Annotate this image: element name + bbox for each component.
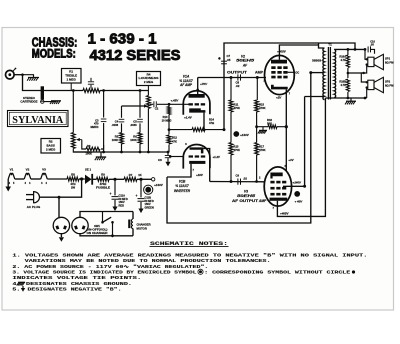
svg-text:+10V: +10V [196,173,204,177]
svg-text:+140V: +140V [240,133,250,137]
svg-text:+140V: +140V [154,183,164,187]
svg-text:V1: V1 [10,167,14,171]
svg-text:50 MFD: 50 MFD [119,197,128,201]
resistor R5 100K [121,123,123,132]
ground bus [73,151,168,153]
svg-text:OUTPUT: OUTPUT [227,70,248,74]
resistor R16A [347,49,349,55]
ground at cartridge [51,100,61,102]
svg-text:AF AMP: AF AMP [179,83,193,87]
svg-text:+: + [110,192,112,196]
svg-text:+1.4V: +1.4V [184,116,193,120]
capacitor C9 .02 [237,179,239,185]
wire SP1 to SP2 series [361,65,366,83]
capacitor C2 [153,101,155,107]
wire AC to rectifier branch [40,179,82,197]
wire motor loop bottom [80,234,133,236]
svg-text:INDICATES VOLTAGE TIE POINTS.: INDICATES VOLTAGE TIE POINTS. [12,275,141,281]
wire loudness box to pot [147,86,149,91]
wire input down to signal line [23,75,84,91]
V3 plate [270,173,282,179]
svg-text:5.: 5. [12,287,20,293]
heater V2 winding [24,173,31,179]
svg-text:SP2: SP2 [385,79,391,83]
svg-text:OC: OC [295,71,299,75]
wire secondary bottom [325,97,366,99]
V1A plate lead [197,78,199,95]
R16 mid tap wire [347,72,350,75]
svg-text:.02: .02 [236,84,240,88]
ground on R18 line [262,127,264,131]
negative arrow below interlock [60,234,62,238]
svg-text:C11A: C11A [119,193,126,197]
control box R1 treble [62,69,82,84]
capacitor C10 .05 [367,46,369,52]
resistor R16B [346,79,349,92]
svg-text:2. AC POWER SOURCE - 117V 60∿: 2. AC POWER SOURCE - 117V 60∿ "VARIAC RE… [12,264,208,270]
svg-text:.05: .05 [370,43,374,47]
signal line to loudness [100,90,148,92]
svg-text:MOTOR: MOTOR [137,226,147,230]
capacitor C11A [114,179,116,195]
svg-text:AMP: AMP [255,70,264,74]
svg-text:ON-OFF(VOL): ON-OFF(VOL) [87,228,108,232]
V1B grid lead [169,156,183,158]
V1B cathode [189,161,205,164]
svg-text:150V: 150V [145,202,151,206]
svg-text:1 - 639 - 1: 1 - 639 - 1 [88,30,157,47]
switch SW1 [101,221,104,224]
svg-text:2 MEG: 2 MEG [144,80,154,84]
svg-text:50EH5: 50EH5 [237,194,255,198]
svg-text:1K: 1K [138,173,141,177]
capacitor C6 to negative B [167,152,169,155]
svg-text:C5: C5 [133,119,137,123]
wire primary bottom lead [305,96,325,98]
svg-text:.0033: .0033 [111,123,118,127]
svg-text:4.7K: 4.7K [341,83,347,87]
wire heater link 1 [15,178,24,180]
svg-text:V3: V3 [244,189,248,193]
svg-text:4.7K: 4.7K [341,58,347,62]
wire primary center tap [311,72,325,74]
svg-text:50 MFD: 50 MFD [145,199,154,203]
capacitor C11B [140,179,142,197]
svg-text:56Ω: 56Ω [267,121,273,125]
svg-text:FUSIBLE: FUSIBLE [96,185,110,189]
svg-text:AF OUTPUT: AF OUTPUT [232,199,258,203]
capacitor C4 .0033 [119,118,125,120]
T1 primary top lead [319,43,325,48]
svg-text:DESIGNATES CHASSIS GROUND.: DESIGNATES CHASSIS GROUND. [26,281,132,287]
transformer T1 core [327,47,329,100]
svg-text:10 MEG: 10 MEG [162,118,172,122]
svg-text:R6: R6 [133,134,137,138]
svg-text:V1B: V1B [179,179,186,183]
svg-text:SYLVANIA: SYLVANIA [12,115,64,126]
resistor R11 470K [230,78,232,101]
wire bass branch down [72,91,74,133]
svg-text:1. VOLTAGES SHOWN ARE AVERAGE: 1. VOLTAGES SHOWN ARE AVERAGE READINGS M… [12,252,367,258]
resistor R13 470K [229,143,233,156]
triode V1A half 12AX7 AF amp [183,91,210,115]
svg-text:38303-1: 38303-1 [312,59,325,63]
tie point +40V [294,191,300,197]
pentode V3 50EH5 AF output amp [264,167,291,206]
svg-text:.02: .02 [243,176,247,180]
wire SP2 bottom [366,88,368,98]
svg-text:SW1: SW1 [94,224,100,228]
V1A cathode lead [203,113,205,130]
svg-text:SCHEMATIC NOTES:: SCHEMATIC NOTES: [150,241,228,247]
wire pot to C2 [150,103,153,105]
resistor R14 47 ohm [192,128,205,132]
wire wiper to R3 [82,140,86,149]
V1A grid dashes [189,103,193,105]
bass pot wiper arrow [78,139,82,141]
speaker SP2 [366,81,368,83]
svg-text:470K: 470K [234,106,240,110]
V2 grid dashes [271,66,275,69]
svg-text:50EH5: 50EH5 [236,58,254,62]
V1B grid dashes [189,155,193,157]
wire AC to interlock [58,197,60,218]
svg-text:100K: 100K [112,138,118,142]
svg-text:47K: 47K [172,139,177,143]
svg-text:470Ω: 470Ω [100,182,107,186]
V2 plate lead [279,45,318,60]
svg-text:+: + [136,194,138,198]
svg-text:C4: C4 [115,119,119,123]
resistor R8 47 ohm 2W [67,177,79,181]
svg-text:R5: R5 [115,134,119,138]
svg-text:T1: T1 [328,43,332,47]
svg-text:R9: R9 [101,173,105,177]
resistor R6 100K [139,123,141,132]
V1A plate [189,94,205,98]
svg-text:8Ω PM: 8Ω PM [385,83,394,87]
svg-text:AC PLUG: AC PLUG [27,205,41,209]
V3 plate lead right [283,185,305,187]
V1B cathode lead [167,164,191,177]
wire cartridge to ground [44,100,56,103]
svg-text:3. VOLTAGE SOURCE IS INDICATED: 3. VOLTAGE SOURCE IS INDICATED BY ENCIRC… [12,270,196,276]
wire V1A plate to V2 grid [198,77,266,79]
svg-text:+70V: +70V [200,82,208,86]
V3 grid dashes [270,181,274,184]
terminal circle B+ [152,178,155,181]
svg-text:+.45V: +.45V [171,98,180,102]
capacitor C7 .05 [221,60,227,62]
resistor R9 fusible [97,177,110,181]
wire jack to cartridge node [14,74,22,76]
V1B plate lead [203,149,209,182]
svg-text:GREEN: GREEN [145,206,154,210]
AC plug [26,194,34,196]
V3 cathode lead [277,98,325,216]
ground at input jack [28,77,39,79]
wire interlock to switch loop [80,212,133,218]
capacitor C8 .02 [237,74,239,80]
wire secondary top [334,48,366,50]
svg-text:½ 12AX7: ½ 12AX7 [175,184,189,188]
svg-text:INVERTER: INVERTER [174,189,191,193]
control box R2 bass [41,139,61,154]
wire heater link 2 [31,178,41,180]
svg-text:4312 SERIES: 4312 SERIES [90,47,181,64]
top feedback bus [224,43,355,130]
wire C3 branch [103,91,105,118]
heater V3 winding [41,173,48,179]
svg-text:CARTRIDGE: CARTRIDGE [20,99,37,103]
Sylvania logo box [8,111,69,127]
wire heater to R8 [47,178,67,180]
resistor R1 treble pot element [83,89,100,93]
resistor R2 bass pot element [71,133,75,149]
control box R4 loudness [137,72,161,86]
svg-text:1 MEG: 1 MEG [67,78,77,82]
svg-text:R13: R13 [234,145,239,149]
V3 cathode [270,198,288,201]
svg-text:C6: C6 [158,158,162,162]
svg-text:+405V: +405V [277,49,287,53]
wire rectified output [109,178,124,180]
wire treble box to signal line [70,83,72,91]
svg-text:R16B: R16B [339,80,346,84]
svg-text:+405V: +405V [280,211,290,215]
wire C5 branch [139,91,141,118]
ground at secondary [350,98,352,101]
svg-text:470K: 470K [259,106,265,110]
svg-text:C9: C9 [236,174,240,178]
interlock plug left [53,217,69,233]
resistor R12 47K [168,128,171,131]
resistor R9 10 MEG [168,104,170,108]
svg-text:: CORRESPONDING SYMBOL WITHOUT: : CORRESPONDING SYMBOL WITHOUT CIRCLE [204,270,350,276]
wire jack ground stub [23,75,34,78]
V2 cathode [271,85,288,90]
svg-text:VARIATIONS MAY BE NOTED DUE TO: VARIATIONS MAY BE NOTED DUE TO NORMAL PR… [25,258,271,264]
V2 screen lead [288,71,295,73]
chassis ground on bus [100,152,102,157]
svg-text:V3: V3 [42,167,46,171]
wire V3 plate to primary [304,97,306,187]
svg-text:R8: R8 [71,172,75,176]
svg-text:R15: R15 [259,102,264,106]
svg-text:150V: 150V [119,200,125,204]
svg-text:R14: R14 [209,118,214,122]
V2 plate [271,60,287,64]
svg-text:R10: R10 [163,115,168,119]
svg-text:R12: R12 [172,136,177,140]
resistor R15 470K [256,78,258,101]
wire V2 cathode down [285,89,287,170]
svg-text:R17: R17 [259,145,264,149]
svg-text:MODELS:: MODELS: [32,47,76,60]
svg-text:8Ω PM: 8Ω PM [385,60,394,64]
resistor R3 100K [86,147,100,151]
tie point +140V supply [144,185,153,194]
loudness wiper arrow [122,105,145,107]
interlock socket right [72,217,88,233]
tie point +140V mid [233,131,239,137]
svg-text:+1.2V: +1.2V [213,155,222,159]
resistor R17 470K [255,143,259,156]
svg-text:470K: 470K [234,148,240,152]
svg-text:✱: ✱ [218,57,221,61]
svg-text:47Ω: 47Ω [209,121,215,125]
svg-text:MMFD: MMFD [90,125,98,129]
resistor R4 loudness pot element [147,91,149,96]
svg-text:C2: C2 [155,107,159,111]
heater V1 winding [8,173,15,179]
svg-text:ON CHANGER: ON CHANGER [87,231,108,235]
title chassis number [32,30,181,63]
svg-text:SP1: SP1 [385,56,391,60]
svg-text:2 MEG: 2 MEG [46,148,56,152]
pentode V2 50EH5 AF output amp [265,55,295,94]
svg-text:R18: R18 [267,118,272,122]
transformer T1 primary winding [323,48,324,100]
resistor R18 56 ohm [257,126,268,128]
svg-text:AMP: AMP [258,199,267,203]
stereo cartridge element [41,86,44,99]
svg-text:C11B: C11B [145,195,152,199]
negative B arrow heater left end [7,179,9,187]
svg-text:470K: 470K [259,148,265,152]
wire R2 bottom to ground bus [73,149,90,153]
triode V1B half 12AX7 inverter [183,145,210,169]
svg-text:R16A: R16A [339,55,346,59]
svg-text:V2: V2 [26,167,30,171]
svg-text:.0033: .0033 [130,123,137,127]
svg-text:RED: RED [119,204,125,208]
svg-text:.05: .05 [227,58,231,62]
V1A cathode [189,108,205,112]
svg-text:100K: 100K [130,138,136,142]
svg-text:R7: R7 [129,173,133,177]
wire V1B plate to V3 grid [210,181,265,183]
wire C2 to V1A grid [157,103,189,105]
svg-text:+ 40V: + 40V [295,199,304,203]
svg-text:SE 1: SE 1 [85,168,92,172]
svg-text:R3: R3 [87,144,91,148]
negative B arrow below C6 [165,162,170,167]
capacitor C1 [90,78,92,81]
capacitor C5 .0033 [137,118,143,120]
svg-text:R11: R11 [234,102,239,106]
input jack J1 [6,70,15,79]
svg-text:+140V: +140V [293,180,303,184]
V1B plate [190,147,204,153]
wire inverter to feedback bus [167,73,311,223]
svg-text:2W: 2W [71,185,75,189]
svg-text:47Ω: 47Ω [70,182,76,186]
changer motor [132,212,134,220]
resistor R7 1K [124,177,137,181]
speaker SP1 [365,49,368,59]
wire loudness tap branch [121,106,123,118]
transformer T1 secondary winding [334,49,335,97]
svg-text:DESIGNATES NEGATIVE "B".: DESIGNATES NEGATIVE "B". [28,287,122,293]
svg-text:½ 12AX7: ½ 12AX7 [179,79,193,83]
capacitor C3 470 MMFD [101,118,107,120]
wire V1A cathode network [169,129,192,131]
